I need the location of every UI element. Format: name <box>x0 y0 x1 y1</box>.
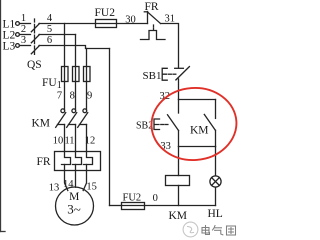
svg-text:KM: KM <box>169 210 188 222</box>
svg-text:QS: QS <box>27 59 42 71</box>
switch QS label <box>27 59 42 71</box>
KM aux label <box>190 125 209 137</box>
switch QS pole 3 blade <box>31 46 39 54</box>
svg-text:15: 15 <box>86 182 97 193</box>
fuse FU1-b <box>73 67 80 82</box>
node 8 label <box>70 91 75 102</box>
wire KM contact 3 to FR <box>86 125 88 152</box>
motor M 3~ <box>56 187 94 225</box>
svg-text:3~: 3~ <box>67 202 81 217</box>
wire fuse-b to KM contact <box>75 82 77 111</box>
svg-text:6: 6 <box>47 35 52 46</box>
node 10 label <box>53 136 64 147</box>
thermal relay FR heater box <box>55 152 101 171</box>
wire 2 <box>20 34 31 36</box>
thermal relay FR NC contact <box>144 12 160 24</box>
KM coil label <box>169 210 188 222</box>
label L3 <box>3 41 16 53</box>
pushbutton SB1 actuator <box>162 68 176 80</box>
contactor KM main contact 2 <box>67 109 77 127</box>
node 2 label <box>21 24 26 35</box>
node 30 label <box>125 14 136 25</box>
HL label <box>208 208 223 220</box>
fuse FU1-a <box>62 67 69 82</box>
wire left return <box>109 49 111 206</box>
contactor KM main contact 1 <box>56 109 66 127</box>
wire FR to motor right <box>83 171 86 191</box>
svg-text:HL: HL <box>208 208 223 220</box>
wire SB1 to node 32 <box>178 79 180 100</box>
wire KM contact 1 to FR <box>64 125 66 152</box>
label L1 <box>3 19 16 31</box>
bottom rail left <box>110 205 122 207</box>
wire FR to motor left <box>65 171 68 191</box>
svg-text:SB1: SB1 <box>143 70 162 82</box>
svg-text:FR: FR <box>37 156 51 168</box>
node 13 label <box>49 183 60 194</box>
FR heater element 1 <box>62 152 71 171</box>
wire KM contact 2 to FR <box>75 125 77 152</box>
motor M text <box>67 191 81 217</box>
wire 4 <box>39 23 96 25</box>
KM main label <box>32 118 51 130</box>
node 4 label <box>47 13 53 24</box>
watermark text qi <box>213 226 223 235</box>
svg-text:8: 8 <box>70 91 75 102</box>
svg-text:11: 11 <box>64 136 74 147</box>
node 6 label <box>47 35 52 46</box>
svg-text:3: 3 <box>21 35 26 46</box>
FR thermal element symbol <box>141 25 166 40</box>
svg-text:5: 5 <box>47 24 52 35</box>
fuse FU1-c <box>84 67 91 82</box>
svg-text:0: 0 <box>153 193 158 204</box>
svg-text:13: 13 <box>49 183 60 194</box>
pushbutton SB2 NO contact <box>168 100 179 131</box>
contactor KM main contact 3 <box>78 109 88 127</box>
wire phase3 drop <box>86 49 88 67</box>
wire phase2 drop <box>75 35 77 67</box>
wire 30 <box>117 23 148 25</box>
terminal L2 <box>16 33 20 37</box>
node 9 label <box>87 91 92 102</box>
svg-text:1: 1 <box>21 13 26 24</box>
terminal L1 <box>16 22 20 26</box>
label L2 <box>3 30 16 42</box>
node 14 label <box>63 179 74 190</box>
pushbutton SB1 NC contact <box>175 67 190 80</box>
node 33 label <box>160 141 171 152</box>
wire 5 <box>39 34 76 36</box>
fuse FU2 bottom <box>122 203 145 210</box>
left page border <box>0 0 5 232</box>
FR label top <box>145 1 159 13</box>
node 7 label <box>57 91 62 102</box>
node 32 rail <box>179 99 216 101</box>
svg-text:31: 31 <box>165 13 176 24</box>
wire 6 <box>39 46 110 49</box>
node 32 label <box>160 91 171 102</box>
node 5 label <box>47 24 52 35</box>
bottom rail right <box>145 205 216 207</box>
node 31 label <box>165 13 176 24</box>
node 1 label <box>21 13 26 24</box>
fuse FU2 bottom label <box>123 193 142 204</box>
wire KM coil to bottom rail <box>178 186 180 206</box>
pushbutton SB2 label <box>136 121 153 132</box>
lamp HL <box>210 176 221 187</box>
node 3 label <box>21 35 26 46</box>
wire lamp to bottom rail <box>215 187 217 205</box>
wire node33 to KM coil <box>178 147 180 176</box>
switch QS linkage (dashed) <box>34 19 36 57</box>
watermark text quan <box>227 226 236 235</box>
contactor KM aux contact <box>204 100 215 147</box>
switch QS pole 2 blade <box>31 35 39 43</box>
watermark logo <box>183 222 198 237</box>
fuse FU2 top <box>96 20 117 28</box>
wire FR to motor mid <box>75 171 77 188</box>
wire phase1 drop <box>64 24 66 67</box>
svg-text:L3: L3 <box>3 41 16 53</box>
node 0 label <box>153 193 158 204</box>
svg-text:KM: KM <box>32 118 51 130</box>
svg-text:7: 7 <box>57 91 62 102</box>
svg-text:KM: KM <box>190 125 209 137</box>
svg-text:10: 10 <box>53 136 64 147</box>
wire fuse-c to KM contact <box>86 82 88 111</box>
wire node33 to lamp <box>215 147 217 176</box>
annotation red ellipse <box>149 85 239 163</box>
node 15 label <box>86 182 97 193</box>
svg-text:4: 4 <box>47 13 53 24</box>
switch QS pole 1 blade <box>31 24 39 32</box>
wire SB2 to node 33 <box>178 131 180 147</box>
watermark text dian <box>202 226 210 235</box>
FR heater element 2 <box>73 152 82 171</box>
node 12 label <box>85 136 96 147</box>
FU1 label <box>42 77 62 91</box>
svg-text:FU1: FU1 <box>42 77 62 91</box>
svg-text:FU2: FU2 <box>95 7 116 19</box>
pushbutton SB2 actuator <box>154 119 168 130</box>
pushbutton SB1 label <box>143 70 162 82</box>
svg-text:2: 2 <box>21 24 26 35</box>
svg-text:9: 9 <box>87 91 92 102</box>
FR heater element 3 <box>84 152 93 171</box>
node 33 rail <box>179 146 216 148</box>
wire fuse-a to KM contact <box>64 82 66 111</box>
fuse FU2 top label <box>95 7 116 19</box>
wire 1 <box>20 23 31 25</box>
contactor coil KM <box>166 176 190 186</box>
wire 3 <box>20 45 31 47</box>
FR label <box>37 156 51 168</box>
terminal L3 <box>16 44 20 48</box>
svg-text:30: 30 <box>125 14 136 25</box>
wire 31 <box>161 24 179 69</box>
node 11 label <box>64 136 74 147</box>
